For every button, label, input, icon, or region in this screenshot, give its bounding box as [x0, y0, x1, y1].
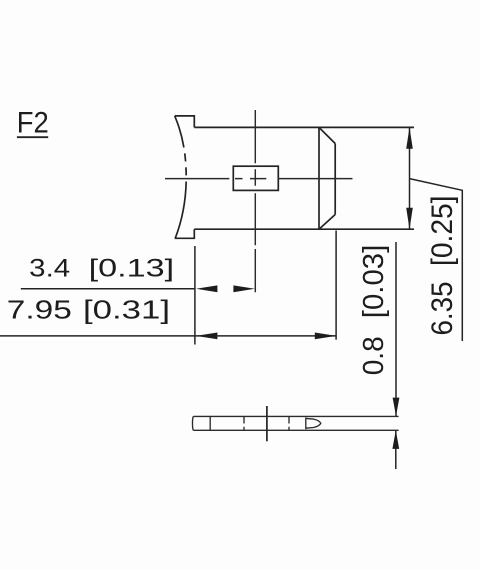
- svg-text:[0.03]: [0.03]: [358, 245, 390, 319]
- break curve (left broken edge): [175, 116, 187, 238]
- svg-text:[0.25]: [0.25]: [426, 196, 459, 267]
- svg-text:6.35: 6.35: [426, 282, 459, 336]
- terminal top step: [175, 116, 195, 128]
- svg-text:[0.13]: [0.13]: [89, 254, 175, 282]
- extension line left (x=195): [194, 246, 196, 345]
- arrowhead 7.95 right: [315, 333, 336, 340]
- vertical centerline: [254, 110, 256, 292]
- dim line 0.8 lower: [395, 430, 397, 469]
- centerlines: [165, 110, 353, 292]
- strip left rounded edge: [191, 416, 194, 430]
- dim line 7.95: [0, 335, 336, 337]
- dimension 6.35 [0.25]: [410, 127, 463, 341]
- slot (hole) in tab: [233, 166, 278, 190]
- arrowhead 0.8 down: [393, 398, 400, 417]
- terminal bottom edge / extension line: [194, 228, 414, 230]
- arrowhead 0.8 up: [392, 430, 399, 449]
- svg-text:3.4: 3.4: [29, 254, 70, 282]
- terminal bottom step: [175, 229, 195, 238]
- dim line 6.35: [409, 127, 411, 229]
- svg-text:7.95: 7.95: [7, 294, 72, 324]
- dimension 0.8 [0.03]: [395, 242, 397, 469]
- strip divider line: [209, 416, 211, 430]
- svg-text:F2: F2: [17, 106, 49, 139]
- label F2: [17, 106, 49, 139]
- F2 underline: [17, 136, 48, 138]
- svg-text:[0.31]: [0.31]: [83, 294, 170, 324]
- terminal right tip edge: [334, 144, 336, 215]
- arrowhead 3.4 right: [233, 285, 254, 292]
- strip hidden line 1: [243, 416, 245, 430]
- dim line 0.8 upper: [395, 242, 397, 416]
- strip top edge: [193, 415, 398, 417]
- svg-text:0.8: 0.8: [358, 336, 390, 375]
- arrowhead 3.4 left: [196, 285, 217, 292]
- dimension 7.95 [0.31]: [0, 231, 336, 340]
- arrowhead 6.35 top: [406, 127, 413, 148]
- strip chamfer nose: [306, 418, 321, 428]
- chamfer start line: [318, 127, 320, 229]
- horizontal centerline: [165, 178, 353, 180]
- leader 6.35: [410, 179, 463, 341]
- strip chamfer edge: [305, 418, 307, 430]
- strip centerline: [266, 406, 268, 441]
- strip bottom edge: [193, 429, 398, 431]
- dimension 3.4 [0.13]: [21, 246, 195, 345]
- arrowhead 6.35 bottom: [406, 208, 413, 229]
- extension line right (x=336): [335, 231, 337, 340]
- chamfer bottom bevel: [319, 215, 335, 230]
- dim line 3.4: [21, 288, 195, 290]
- chamfer top bevel: [319, 127, 335, 143]
- bottom strip view: [192, 416, 398, 430]
- arrowhead 7.95 left: [196, 333, 217, 340]
- terminal top edge / extension line: [194, 126, 414, 128]
- strip hidden line 2: [288, 416, 290, 430]
